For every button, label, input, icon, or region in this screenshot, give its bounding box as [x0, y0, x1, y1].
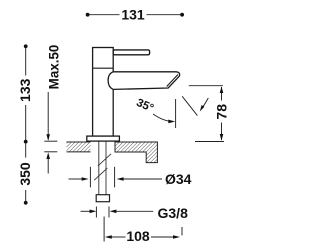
- dimension O34: [69, 178, 82, 180]
- 35deg leader arrow: [153, 114, 173, 121]
- water stream line: [182, 96, 197, 115]
- body joint line: [93, 67, 114, 69]
- svg-text:Ø34: Ø34: [165, 171, 192, 187]
- counter right hatched section: [115, 142, 157, 163]
- dimension 78 (right vertical): [189, 85, 223, 87]
- pipe break symbol: [94, 154, 111, 180]
- spout: [108, 72, 180, 90]
- stream pointer arrow: [203, 98, 208, 107]
- svg-text:350: 350: [17, 162, 33, 186]
- dimension 131 (top): [88, 14, 183, 16]
- G3/8 nut: [96, 195, 109, 202]
- svg-text:108: 108: [126, 228, 150, 244]
- svg-text:78: 78: [213, 104, 229, 120]
- dimension G3/8: [81, 210, 91, 212]
- aerator inner line: [167, 75, 178, 87]
- counter left hatched section: [67, 142, 91, 152]
- faucet body: [93, 48, 114, 137]
- lever handle: [113, 50, 149, 55]
- dimension 108 (bottom): [103, 217, 105, 242]
- flange: [87, 136, 120, 141]
- supply pipe: [99, 140, 106, 194]
- svg-text:G3/8: G3/8: [158, 205, 189, 221]
- outlet vertical reference line: [175, 99, 177, 128]
- dimension 133 / 350 (left vertical): [25, 46, 27, 203]
- svg-text:133: 133: [17, 78, 33, 102]
- svg-text:Max.50: Max.50: [46, 45, 61, 90]
- svg-text:131: 131: [121, 7, 145, 23]
